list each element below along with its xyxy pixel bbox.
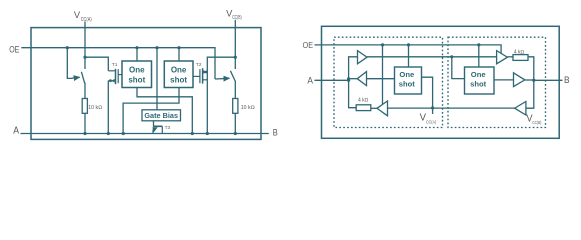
node T1 source on A line: [107, 132, 110, 135]
one-shot 2 box: [164, 61, 193, 88]
node OE to one-shot B: [477, 43, 480, 46]
buffer U4 one-shot A accelerator: [347, 72, 367, 86]
wire one-shot B sense to A-to-B wire: [452, 57, 465, 79]
wire OE to one-shot B: [478, 45, 480, 67]
wire T2 drain to VCC(B) rail: [207, 57, 235, 133]
pin A label (right diagram): [307, 76, 313, 86]
svg-text:shot: shot: [470, 79, 487, 88]
svg-text:B: B: [564, 75, 570, 86]
outer box U1: [31, 28, 261, 140]
wire OE to driver A enable: [382, 45, 384, 104]
svg-text:CC(A): CC(A): [81, 17, 92, 23]
resistor RA 10k: [82, 99, 102, 114]
wire one-shot 2 output to A sense: [123, 88, 179, 134]
resistor R1 4k (A side): [356, 98, 371, 111]
wire resistor to B line: [234, 113, 236, 133]
svg-text:4 kΩ: 4 kΩ: [514, 49, 525, 55]
wire OE horizontal: [21, 48, 215, 79]
switch S2 (B-side): [230, 57, 235, 81]
power VCC(A) label: [74, 10, 92, 23]
wire gate bias to T3 gate: [153, 121, 155, 127]
power VCC(B) label: [226, 8, 242, 21]
wire one-shot 1 output to B sense: [137, 88, 192, 134]
node OE to driver A enable: [381, 43, 384, 46]
wire A-B line: [21, 133, 269, 135]
wire OE switch control left with arrow: [67, 48, 79, 79]
wire one-shot A sense to B-to-A wire: [422, 77, 433, 114]
wire 4k to B node: [526, 57, 534, 108]
wire OE to one-shot 2 pin: [178, 48, 180, 61]
switch S1 (A-side): [81, 57, 85, 83]
node OE to gate bias: [155, 46, 158, 49]
wire VCC(A) drop: [84, 22, 86, 58]
svg-text:10 kΩ: 10 kΩ: [88, 105, 102, 111]
svg-text:One: One: [129, 65, 145, 74]
node B junction: [532, 79, 535, 82]
svg-text:OE: OE: [9, 44, 19, 54]
pin A label: [13, 125, 19, 136]
node one-shot A sense junction: [431, 106, 434, 109]
power VCC(B) label (right diagram): [526, 113, 541, 125]
node resistor A junction: [83, 132, 86, 135]
node OE branch A: [66, 46, 69, 49]
node one-shot B sense tap: [450, 55, 453, 58]
pin OE label (right diagram): [303, 40, 314, 50]
wire OE distribution: [315, 45, 502, 54]
svg-text:B: B: [273, 128, 278, 138]
pin B label: [273, 128, 278, 138]
wire B-to-A internal: [388, 107, 515, 109]
svg-text:CC(A): CC(A): [426, 119, 437, 124]
svg-text:T2: T2: [196, 62, 202, 68]
outer box U2: [322, 26, 560, 138]
wire resistor to A line: [84, 113, 86, 133]
one-shot 1 box: [122, 61, 152, 88]
pin B label (right diagram): [564, 75, 570, 86]
wire 4k to A node: [349, 80, 357, 107]
wire switch to resistor (A-side): [84, 83, 86, 99]
svg-text:shot: shot: [399, 79, 416, 88]
resistor RB 10k: [233, 99, 255, 114]
svg-text:10 kΩ: 10 kΩ: [241, 105, 255, 111]
svg-text:shot: shot: [170, 75, 187, 84]
svg-text:One: One: [171, 65, 187, 74]
node VCC(A) junction: [83, 56, 86, 59]
node A junction: [347, 79, 350, 82]
node OE to one-shot A: [407, 43, 410, 46]
resistor R2 4k (B side): [513, 49, 528, 60]
wire VCC(A) rail to T1 drain: [85, 57, 108, 71]
wire OE to one-shot A: [408, 45, 410, 67]
svg-text:T1: T1: [112, 62, 118, 68]
node OE to one-shot 2: [177, 46, 180, 49]
driver U7 A-to-B output: [497, 51, 513, 64]
pin OE label: [9, 44, 19, 54]
one-shot B box: [465, 67, 495, 94]
svg-text:Gate Bias: Gate Bias: [144, 111, 178, 120]
dashed cell B: [448, 37, 546, 127]
wire B output: [534, 79, 563, 81]
transistor T2: [193, 62, 208, 84]
svg-text:One: One: [471, 70, 486, 79]
transistor T1: [108, 62, 122, 84]
svg-text:4 kΩ: 4 kΩ: [358, 98, 369, 104]
node resistor B junction: [234, 132, 237, 135]
wire OE to gate bias: [156, 48, 158, 110]
svg-text:One: One: [399, 70, 414, 79]
node OE to one-shot 1: [135, 46, 138, 49]
dashed cell A: [334, 37, 443, 127]
wire A to buffer 1 input: [349, 57, 358, 81]
power VCC(A) label (right diagram): [420, 112, 437, 124]
svg-text:shot: shot: [128, 75, 145, 84]
buffer U6 one-shot B accelerator: [494, 73, 534, 87]
wire OE switch control right with arrow: [215, 77, 229, 80]
wire T1 source to A line: [107, 81, 109, 134]
wire A-to-B internal: [367, 56, 497, 58]
buffer U3 A-to-B input: [358, 51, 368, 64]
wire VCC(B) drop: [234, 20, 236, 57]
svg-text:CC(B): CC(B): [532, 120, 542, 125]
driver U5 B-to-A output: [371, 101, 388, 116]
node sense A junction: [122, 132, 125, 135]
buffer U8 B-to-A input: [515, 102, 526, 116]
one-shot A box: [395, 67, 422, 94]
svg-text:CC(B): CC(B): [232, 15, 242, 21]
gate bias box: [142, 110, 181, 121]
node T2 source on B line: [206, 132, 209, 135]
svg-text:V: V: [74, 10, 81, 21]
svg-text:A: A: [13, 125, 19, 136]
node sense B junction: [191, 132, 194, 135]
wire switch to resistor (B-side): [234, 81, 236, 99]
svg-text:A: A: [307, 76, 313, 86]
node VCC(B) junction: [234, 56, 237, 59]
wire A input: [315, 79, 349, 81]
transistor T3: [152, 125, 170, 133]
wire OE to one-shot 1 pin: [136, 48, 138, 61]
svg-text:OE: OE: [303, 40, 314, 50]
wire one-shot A output to accelerator: [367, 78, 395, 80]
svg-text:T3: T3: [165, 125, 171, 131]
